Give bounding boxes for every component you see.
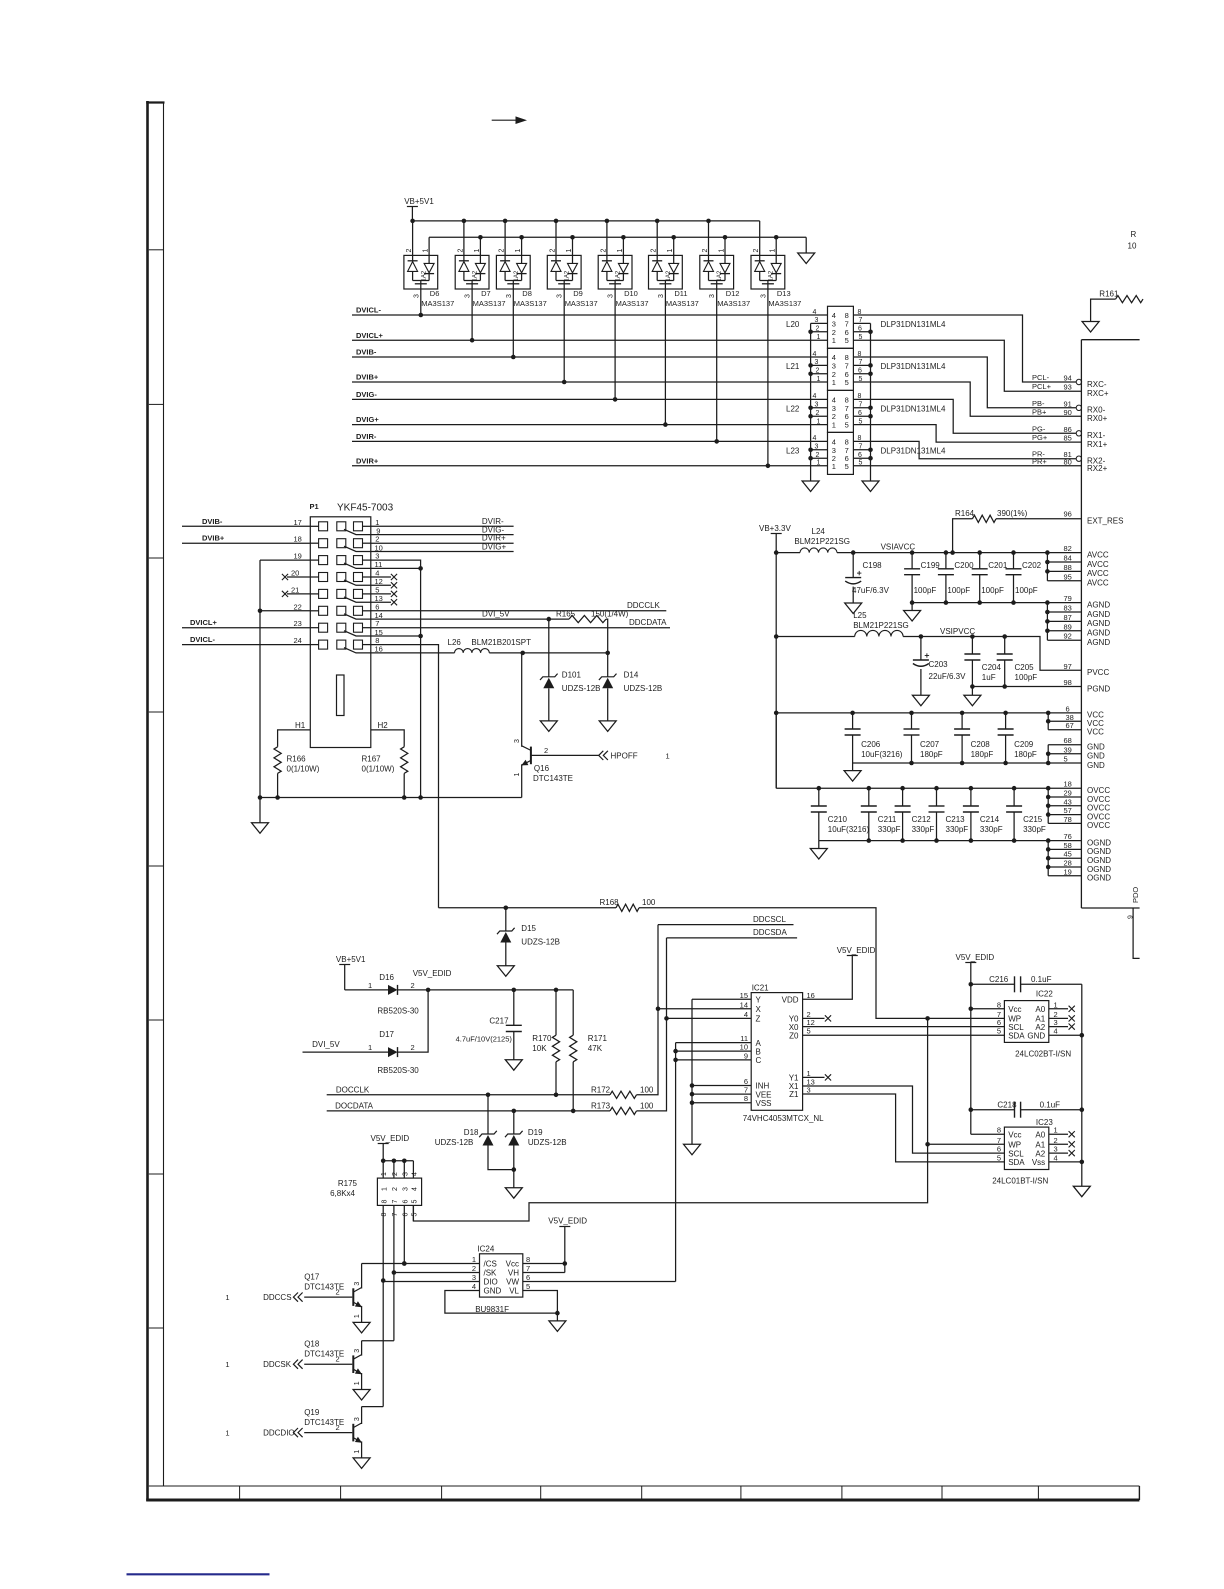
wire IC21 Y1 no-connect <box>803 1076 825 1078</box>
svg-text:6: 6 <box>997 1145 1001 1154</box>
wire Q16 base HPOFF <box>531 754 599 756</box>
svg-text:D8: D8 <box>522 289 532 298</box>
svg-text:4: 4 <box>744 1010 748 1019</box>
wire Q17 base <box>304 1296 352 1298</box>
svg-text:Q16: Q16 <box>534 764 550 773</box>
svg-text:1uF: 1uF <box>982 673 996 682</box>
svg-text:5: 5 <box>412 1200 419 1204</box>
svg-text:8: 8 <box>381 1200 388 1204</box>
svg-text:68: 68 <box>1064 736 1072 745</box>
wire GND pin bus <box>1047 745 1049 763</box>
ground IC21 <box>684 1144 701 1155</box>
connector HPOFF off-page <box>599 751 604 760</box>
svg-text:2: 2 <box>816 410 820 417</box>
svg-text:14: 14 <box>740 1000 748 1009</box>
wire IC21 pin 14 X <box>658 1008 751 1010</box>
junction D13 pin3 to DVI line <box>766 464 771 469</box>
svg-text:1: 1 <box>832 421 836 430</box>
ground D14 <box>599 721 616 732</box>
diode D10 MA3S137 (dual) <box>598 255 632 289</box>
svg-text:/SK: /SK <box>484 1269 498 1278</box>
svg-text:L20: L20 <box>786 320 800 329</box>
svg-text:R165: R165 <box>556 610 576 619</box>
wire EEPROM ground bus <box>1081 984 1083 1186</box>
wire IC21 A/B/C select bus <box>676 1042 752 1044</box>
capacitor C214 330pF <box>970 788 972 806</box>
svg-text:OVCC: OVCC <box>1087 812 1110 821</box>
svg-text:VW: VW <box>506 1278 519 1287</box>
svg-text:390(1%): 390(1%) <box>997 509 1028 518</box>
wire P1 pin 1 DVIR- <box>371 525 514 527</box>
svg-text:IC22: IC22 <box>1036 989 1053 998</box>
svg-text:330pF: 330pF <box>946 825 969 834</box>
capacitor C215 330pF <box>1013 788 1015 806</box>
svg-text:R170: R170 <box>532 1034 552 1043</box>
svg-text:EXT_RES: EXT_RES <box>1087 517 1123 526</box>
wire Q17 collector to IC24 /CS <box>362 1263 480 1265</box>
svg-text:OGND: OGND <box>1087 874 1111 883</box>
svg-text:Q18: Q18 <box>304 1340 320 1349</box>
svg-text:D6: D6 <box>430 289 440 298</box>
svg-text:100pF: 100pF <box>947 586 970 595</box>
ground IC24 <box>556 1313 558 1321</box>
svg-text:39: 39 <box>1064 745 1072 754</box>
svg-text:MA3S137: MA3S137 <box>514 299 547 308</box>
wire Q19 emitter <box>361 1441 363 1458</box>
wire OVCC rail <box>776 787 1081 789</box>
wire P1 pin 2 DVIR+ <box>371 542 514 544</box>
svg-text:2: 2 <box>816 368 820 375</box>
svg-text:BLM21P221SG: BLM21P221SG <box>853 621 909 630</box>
svg-text:DDCSDA: DDCSDA <box>753 928 787 937</box>
svg-text:1: 1 <box>617 249 624 253</box>
connector P1 key slot <box>337 675 345 716</box>
svg-text:D19: D19 <box>528 1128 543 1137</box>
svg-text:VSIAVCC: VSIAVCC <box>881 543 916 552</box>
wire P1 pin 3 <box>371 560 421 568</box>
svg-text:78: 78 <box>1064 815 1072 824</box>
svg-text:V5V_EDID: V5V_EDID <box>413 969 452 978</box>
svg-text:VB+3.3V: VB+3.3V <box>759 524 791 533</box>
svg-text:3: 3 <box>815 444 819 451</box>
wire ground rail below P1 <box>260 797 522 799</box>
wire P1 pin 15 <box>371 635 421 637</box>
wire IC22 GND to bus <box>1049 1034 1082 1036</box>
svg-text:3: 3 <box>815 317 819 324</box>
svg-text:2: 2 <box>600 249 607 253</box>
svg-text:DOCDATA: DOCDATA <box>335 1101 374 1110</box>
svg-text:DOCCLK: DOCCLK <box>336 1085 370 1094</box>
choke L23 DLP31DN131ML4 <box>828 432 854 474</box>
svg-text:DDCSK: DDCSK <box>263 1360 292 1369</box>
svg-text:D12: D12 <box>726 289 740 298</box>
junction D8 pin3 to DVI line <box>511 355 516 360</box>
wire P1 pin 11 <box>371 567 421 569</box>
diode D9 MA3S137 (dual) <box>547 255 581 289</box>
svg-text:DVIB-: DVIB- <box>356 348 377 357</box>
wire Q16 collector <box>521 653 523 747</box>
svg-text:5: 5 <box>997 1027 1001 1036</box>
svg-text:A0: A0 <box>1035 1130 1045 1139</box>
capacitor C209 180pF <box>1005 713 1007 729</box>
svg-text:24LC02BT-I/SN: 24LC02BT-I/SN <box>1015 1049 1071 1058</box>
svg-text:1: 1 <box>719 249 726 253</box>
svg-text:GND: GND <box>1087 752 1105 761</box>
wire PGND rail <box>972 686 1081 688</box>
capacitor C200 100pF <box>945 553 947 569</box>
svg-text:1: 1 <box>817 460 821 467</box>
capacitor C204 1uF <box>971 637 973 655</box>
wire Q18 base <box>304 1363 352 1365</box>
svg-text:3: 3 <box>403 1187 410 1191</box>
svg-text:DVIR+: DVIR+ <box>356 456 379 465</box>
svg-text:10uF(3216): 10uF(3216) <box>828 825 870 834</box>
svg-text:1A2: 1A2 <box>514 270 520 281</box>
capacitor C208 180pF <box>961 713 963 729</box>
svg-text:C210: C210 <box>828 815 848 824</box>
svg-text:4: 4 <box>1054 1153 1058 1162</box>
svg-text:L24: L24 <box>812 527 826 536</box>
svg-text:92: 92 <box>1064 632 1072 641</box>
svg-text:DVI_5V: DVI_5V <box>482 610 510 619</box>
wire P1 pin 12 no-connect <box>371 584 391 586</box>
svg-text:SDA: SDA <box>1008 1031 1025 1040</box>
svg-text:90: 90 <box>1064 408 1072 417</box>
svg-text:D15: D15 <box>521 924 536 933</box>
svg-text:1: 1 <box>832 336 836 345</box>
svg-text:DVIB+: DVIB+ <box>202 534 225 543</box>
svg-text:D10: D10 <box>624 289 638 298</box>
svg-text:AGND: AGND <box>1087 629 1110 638</box>
svg-text:93: 93 <box>1064 383 1072 392</box>
svg-text:DLP31DN131ML4: DLP31DN131ML4 <box>881 362 946 371</box>
svg-text:D13: D13 <box>777 289 791 298</box>
svg-text:D101: D101 <box>562 671 582 680</box>
svg-text:1: 1 <box>515 249 522 253</box>
svg-text:5: 5 <box>997 1153 1001 1162</box>
svg-text:DVIB+: DVIB+ <box>356 373 379 382</box>
svg-text:RX1+: RX1+ <box>1087 440 1108 449</box>
svg-text:10K: 10K <box>532 1044 547 1053</box>
svg-text:9: 9 <box>744 1051 748 1060</box>
ground Q18 <box>353 1390 370 1401</box>
wire net PR+ <box>853 465 1081 467</box>
svg-text:2: 2 <box>411 1043 415 1052</box>
svg-text:Vcc: Vcc <box>1008 1130 1021 1139</box>
svg-text:3: 3 <box>354 1349 361 1353</box>
wire DIO to IC24 <box>383 1281 479 1283</box>
svg-text:96: 96 <box>1064 510 1072 519</box>
svg-text:MA3S137: MA3S137 <box>565 299 598 308</box>
wire Q18 emitter <box>361 1373 363 1390</box>
svg-text:DVICL+: DVICL+ <box>190 618 218 627</box>
svg-text:330pF: 330pF <box>980 825 1003 834</box>
svg-text:OGND: OGND <box>1087 847 1111 856</box>
svg-text:3: 3 <box>472 1273 476 1282</box>
svg-text:330pF: 330pF <box>878 825 901 834</box>
svg-text:1: 1 <box>566 249 573 253</box>
svg-text:R161: R161 <box>1099 289 1119 298</box>
wire IC24 GND / VL to ground <box>445 1291 558 1314</box>
capacitor C201 100pF <box>979 553 981 569</box>
svg-text:1: 1 <box>832 378 836 387</box>
svg-text:1A2: 1A2 <box>768 270 774 281</box>
svg-text:1A2: 1A2 <box>565 270 571 281</box>
capacitor C213 330pF <box>936 788 938 806</box>
svg-text:RB520S-30: RB520S-30 <box>377 1007 419 1016</box>
svg-text:100: 100 <box>642 898 656 907</box>
svg-text:1A2: 1A2 <box>473 270 479 281</box>
svg-text:29: 29 <box>1064 789 1072 798</box>
svg-text:AVCC: AVCC <box>1087 560 1109 569</box>
capacitor C207 180pF <box>911 713 913 729</box>
wire IC24 Vcc <box>523 1263 565 1265</box>
svg-text:1: 1 <box>1054 1000 1058 1009</box>
svg-text:85: 85 <box>1064 434 1072 443</box>
svg-text:DVIG-: DVIG- <box>356 390 377 399</box>
svg-text:100pF: 100pF <box>981 586 1004 595</box>
svg-text:4: 4 <box>813 309 817 316</box>
svg-text:GND: GND <box>484 1287 502 1296</box>
svg-text:1A2: 1A2 <box>421 270 427 281</box>
svg-text:RXC-: RXC- <box>1087 380 1107 389</box>
svg-text:5: 5 <box>845 421 849 430</box>
wire P1 pins 3/11/15 ground vertical <box>420 568 422 797</box>
wire Q18 collector <box>361 1341 363 1356</box>
ground cap rail <box>911 603 913 611</box>
wire R175 top bus <box>383 1160 413 1162</box>
svg-text:R171: R171 <box>588 1034 608 1043</box>
svg-text:1: 1 <box>423 249 430 253</box>
ground choke right bus <box>862 481 879 492</box>
svg-text:83: 83 <box>1064 604 1072 613</box>
svg-text:IC21: IC21 <box>752 983 769 992</box>
svg-text:OGND: OGND <box>1087 856 1111 865</box>
svg-text:1: 1 <box>354 1314 361 1318</box>
svg-text:SCL: SCL <box>1008 1149 1024 1158</box>
svg-text:VSIPVCC: VSIPVCC <box>940 627 975 636</box>
svg-text:MA3S137: MA3S137 <box>473 299 506 308</box>
svg-text:DVIB-: DVIB- <box>202 517 223 526</box>
svg-text:R166: R166 <box>287 755 307 764</box>
junction D12 pin3 to DVI line <box>714 439 719 444</box>
svg-text:3: 3 <box>506 294 513 298</box>
svg-text:57: 57 <box>1064 806 1072 815</box>
svg-text:3: 3 <box>413 294 420 298</box>
svg-text:1: 1 <box>514 773 521 777</box>
choke L21 DLP31DN131ML4 <box>828 348 854 390</box>
diode D8 MA3S137 (dual) <box>496 255 530 289</box>
svg-text:20: 20 <box>291 569 299 578</box>
wire IC21 pin 15 Y <box>692 998 751 1000</box>
svg-text:C199: C199 <box>921 561 941 570</box>
wire VB+5V1 rail (diode pin2 bus) <box>412 220 759 222</box>
svg-text:19: 19 <box>294 552 302 561</box>
svg-text:76: 76 <box>1064 832 1072 841</box>
wire D17 cathode to V5V_EDID <box>398 990 429 1052</box>
svg-text:2: 2 <box>336 1355 340 1364</box>
svg-text:C: C <box>756 1056 762 1065</box>
svg-text:R167: R167 <box>362 755 382 764</box>
svg-text:C213: C213 <box>946 815 966 824</box>
svg-text:AGND: AGND <box>1087 619 1110 628</box>
wire P1 shield ground bus <box>259 560 261 797</box>
svg-text:C209: C209 <box>1014 740 1034 749</box>
svg-text:8: 8 <box>997 1126 1001 1135</box>
svg-text:UDZS-12B: UDZS-12B <box>435 1138 474 1147</box>
svg-text:DVICL-: DVICL- <box>356 306 382 315</box>
svg-text:74VHC4053MTCX_NL: 74VHC4053MTCX_NL <box>743 1114 824 1123</box>
svg-text:D11: D11 <box>674 289 687 298</box>
svg-text:1: 1 <box>1054 1126 1058 1135</box>
svg-text:47K: 47K <box>588 1044 603 1053</box>
svg-text:7: 7 <box>526 1264 530 1273</box>
svg-text:4: 4 <box>412 1187 419 1191</box>
svg-text:PB+: PB+ <box>1032 407 1047 416</box>
svg-text:24: 24 <box>294 636 302 645</box>
wire IC24 VH <box>523 1272 565 1274</box>
svg-text:GND: GND <box>1087 743 1105 752</box>
svg-text:18: 18 <box>294 535 302 544</box>
svg-text:1: 1 <box>472 1255 476 1264</box>
svg-text:15: 15 <box>740 991 748 1000</box>
svg-text:28: 28 <box>1064 859 1072 868</box>
ground for diode pin1 bus <box>805 237 807 253</box>
choke L22 DLP31DN131ML4 <box>828 390 854 432</box>
wire AVCC pin bus <box>1046 553 1048 581</box>
svg-text:DTC143TE: DTC143TE <box>533 774 573 783</box>
svg-text:2: 2 <box>457 249 464 253</box>
svg-text:3: 3 <box>807 1086 811 1095</box>
svg-text:C200: C200 <box>954 561 974 570</box>
svg-text:MA3S137: MA3S137 <box>421 299 454 308</box>
svg-text:L26: L26 <box>448 638 462 647</box>
svg-text:AGND: AGND <box>1087 638 1110 647</box>
svg-text:8: 8 <box>381 1213 388 1217</box>
wire P1 pin 19 to ground bus <box>260 559 310 561</box>
svg-text:VB+5V1: VB+5V1 <box>404 197 434 206</box>
svg-text:PCL+: PCL+ <box>1032 382 1052 391</box>
wire P1 pin 6 net DDCCLK <box>371 610 667 612</box>
capacitor C203 22uF/6.3V <box>920 637 922 661</box>
svg-text:82: 82 <box>1064 544 1072 553</box>
svg-text:V5V_EDID: V5V_EDID <box>837 946 876 955</box>
wire IC24 VW to IC21 A/B/C <box>523 1281 676 1283</box>
wire P1 pin 5 no-connect <box>371 593 391 595</box>
svg-text:3: 3 <box>760 294 767 298</box>
svg-text:8: 8 <box>526 1255 530 1264</box>
svg-text:C211: C211 <box>878 815 897 824</box>
wire P1 pin 14 net DVI_5V <box>371 618 549 620</box>
svg-text:P1: P1 <box>310 502 319 511</box>
pin bubble 81 <box>1076 456 1081 461</box>
wire net PR- <box>853 441 1076 458</box>
svg-text:DDCCS: DDCCS <box>263 1293 291 1302</box>
svg-text:79: 79 <box>1064 594 1072 603</box>
svg-text:RXC+: RXC+ <box>1087 389 1109 398</box>
svg-text:18: 18 <box>1064 780 1072 789</box>
wire IC23 A0 no-connect <box>1049 1133 1068 1135</box>
svg-text:L25: L25 <box>853 611 867 620</box>
svg-text:OGND: OGND <box>1087 838 1111 847</box>
svg-text:84: 84 <box>1064 554 1072 563</box>
svg-text:RX1-: RX1- <box>1087 431 1106 440</box>
wire GND rail <box>853 762 1082 764</box>
ground rail <box>259 798 261 823</box>
junction D9 pin3 to DVI line <box>562 380 567 385</box>
wire IC21 INH/VEE/VSS ground bus <box>692 1085 751 1087</box>
ground C203 <box>912 695 929 706</box>
svg-text:4: 4 <box>813 435 817 442</box>
wire L26 output <box>489 652 607 654</box>
svg-text:DLP31DN131ML4: DLP31DN131ML4 <box>881 446 946 455</box>
svg-text:1: 1 <box>817 376 821 383</box>
svg-text:DDCDATA: DDCDATA <box>629 618 667 627</box>
svg-text:0(1/10W): 0(1/10W) <box>362 764 395 773</box>
svg-text:2: 2 <box>472 1264 476 1273</box>
svg-text:PVCC: PVCC <box>1087 668 1109 677</box>
svg-text:10uF(3216): 10uF(3216) <box>861 750 903 759</box>
wire IC21 Z1 to IC23 SDA <box>803 1094 1005 1162</box>
svg-text:3: 3 <box>709 294 716 298</box>
svg-text:AVCC: AVCC <box>1087 569 1109 578</box>
svg-text:7: 7 <box>859 317 863 324</box>
svg-text:5: 5 <box>526 1282 530 1291</box>
svg-text:100pF: 100pF <box>914 586 937 595</box>
wire R175 pin8 to DIO net <box>382 1205 384 1280</box>
wire R168 to EEPROM WP <box>639 908 1004 1019</box>
svg-text:Vss: Vss <box>1032 1158 1045 1167</box>
ground D101 <box>540 721 557 732</box>
svg-text:98: 98 <box>1064 678 1072 687</box>
ground Q19 <box>353 1458 370 1469</box>
diode D7 MA3S137 (dual) <box>455 255 489 289</box>
svg-text:D7: D7 <box>481 289 491 298</box>
svg-text:2: 2 <box>1054 1136 1058 1145</box>
svg-text:23: 23 <box>294 619 302 628</box>
wire net from P1 pin 8 (R168 line) <box>439 907 617 909</box>
svg-text:3: 3 <box>402 1172 409 1176</box>
svg-text:R: R <box>1131 230 1137 239</box>
wire IC22 A1 no-connect <box>1049 1017 1068 1019</box>
svg-text:89: 89 <box>1064 622 1072 631</box>
diode D6 MA3S137 (dual) <box>404 255 438 289</box>
svg-text:2: 2 <box>753 249 760 253</box>
svg-text:7: 7 <box>392 1200 399 1204</box>
svg-text:3: 3 <box>815 359 819 366</box>
diode D11 MA3S137 (dual) <box>649 255 683 289</box>
IC U1 DVI receiver (clipped at page edge) <box>1080 340 1082 908</box>
svg-text:97: 97 <box>1064 662 1072 671</box>
wire arrow marker <box>492 119 519 121</box>
svg-text:4: 4 <box>813 351 817 358</box>
svg-text:7: 7 <box>392 1213 399 1217</box>
ground R161 <box>1082 322 1099 333</box>
capacitor C211 330pF <box>868 788 870 806</box>
svg-text:3: 3 <box>658 294 665 298</box>
diode D12 MA3S137 (dual) <box>700 255 734 289</box>
svg-text:VB+5V1: VB+5V1 <box>336 955 366 964</box>
svg-text:SDA: SDA <box>1008 1158 1025 1167</box>
svg-text:C204: C204 <box>982 663 1002 672</box>
svg-text:1: 1 <box>381 1172 388 1176</box>
wire net PG+ <box>853 425 1081 443</box>
svg-text:MA3S137: MA3S137 <box>717 299 750 308</box>
wire R175 pin5 vertical <box>412 1205 414 1221</box>
svg-text:UDZS-12B: UDZS-12B <box>624 684 663 693</box>
svg-text:C203: C203 <box>929 660 949 669</box>
svg-text:6: 6 <box>858 326 862 333</box>
